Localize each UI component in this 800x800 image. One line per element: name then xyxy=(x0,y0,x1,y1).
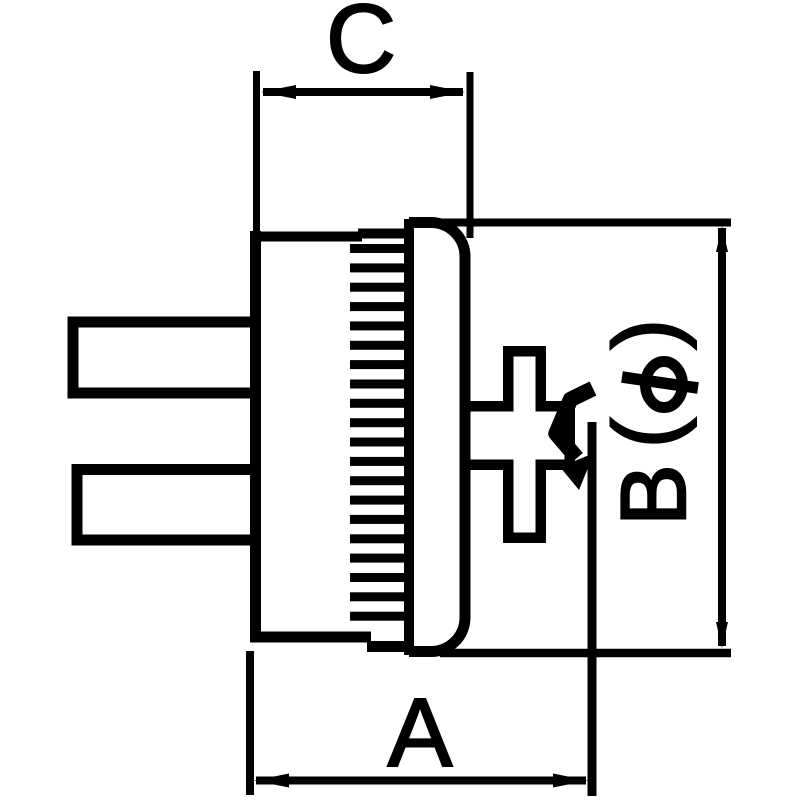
svg-text:C: C xyxy=(326,0,396,93)
dimension C arrow line xyxy=(263,88,463,96)
dimension A right extension line (panel line) xyxy=(588,422,597,796)
label phi slash xyxy=(622,377,698,388)
svg-text:(: ( xyxy=(595,417,697,448)
upper terminal xyxy=(73,322,255,393)
body top edge xyxy=(250,232,362,242)
nut cross (plus outline) xyxy=(466,351,570,538)
body top edge raised step xyxy=(358,229,409,239)
dimension A arrow line xyxy=(256,777,586,785)
dimension B arrow line xyxy=(718,228,726,646)
dimension C right arrowhead xyxy=(430,85,465,99)
threads (ribbed section) xyxy=(350,244,409,621)
body bottom edge lowered step xyxy=(367,641,414,652)
cap flange line xyxy=(404,219,414,655)
dimension C left arrowhead xyxy=(261,85,296,99)
dimension B top extension line xyxy=(440,219,731,227)
label phi ring xyxy=(646,362,683,408)
lower terminal xyxy=(77,470,255,541)
dimension C left extension line xyxy=(253,71,260,240)
svg-text:A: A xyxy=(388,678,453,787)
body bottom edge xyxy=(250,632,371,643)
dimension C right extension line xyxy=(467,72,474,238)
dimension B bottom extension line xyxy=(440,649,731,658)
dimension A left arrowhead xyxy=(254,774,289,788)
body left edge xyxy=(250,231,261,643)
dimension A right arrowhead xyxy=(553,774,588,788)
svg-text:B: B xyxy=(603,464,705,525)
clip spring arrow tail xyxy=(556,389,593,459)
dimension A left extension line xyxy=(246,651,254,795)
dimension B bottom arrowhead xyxy=(716,622,728,648)
cap outline xyxy=(409,223,465,652)
dimension B top arrowhead xyxy=(716,226,728,252)
clip spring arrowhead xyxy=(560,453,594,490)
svg-text:): ) xyxy=(595,319,697,350)
